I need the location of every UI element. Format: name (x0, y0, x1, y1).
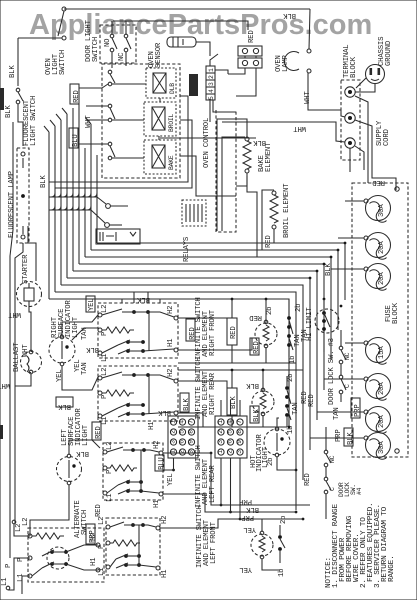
label BLK mid (180, 393, 189, 412)
wire L2 bottom (14, 524, 30, 536)
fuse 20A 6 (366, 407, 391, 432)
svg-text:1: 1 (217, 420, 224, 424)
terminal 1 (345, 87, 355, 97)
svg-text:WHT: WHT (0, 381, 10, 389)
svg-text:P: P (5, 564, 13, 568)
svg-text:RED: RED (73, 90, 81, 103)
alternate switch box (28, 528, 104, 582)
svg-text:BLK: BLK (76, 449, 89, 457)
wire bundle horizontal long (55, 243, 345, 510)
ISW2 terminal H2 (174, 379, 178, 383)
svg-text:BLK: BLK (230, 396, 238, 409)
svg-text:2b: 2b (287, 374, 295, 382)
oven light switch (62, 36, 66, 40)
svg-text:BLK: BLK (183, 398, 191, 411)
label RED isw1 (186, 319, 195, 341)
ISW4 heater resistor (110, 540, 140, 546)
connector RED lower (238, 58, 262, 68)
ISW1 terminal L1 (98, 351, 102, 355)
svg-text:1: 1 (208, 68, 215, 72)
door light switch NO contacts (110, 34, 114, 38)
svg-text:YEL: YEL (88, 298, 96, 311)
svg-text:TAN: TAN (333, 407, 341, 420)
svg-text:AppliancePartsPros.com: AppliancePartsPros.com (29, 9, 372, 41)
wire sel1 bus (178, 362, 296, 364)
ISW3 terminal H1 (159, 492, 163, 496)
ISW3 heater resistor (107, 465, 137, 471)
wire bottom bus 3 (160, 519, 303, 528)
fuse 20A 5 (366, 374, 391, 399)
svg-text:BLK: BLK (5, 105, 13, 118)
wire dl4 top (325, 427, 327, 444)
svg-text:4: 4 (179, 420, 186, 424)
wire fuse feeds (345, 200, 364, 202)
svg-text:9: 9 (188, 440, 195, 444)
sel1 contacts (287, 316, 291, 320)
svg-text:BLK: BLK (246, 505, 259, 513)
chassis ground symbol (366, 65, 385, 84)
wire bundle top hooks (44, 126, 49, 132)
relay BROIL (144, 102, 176, 136)
scan mark left edge (0, 88, 4, 110)
svg-text:1: 1 (217, 450, 224, 454)
svg-text:H2: H2 (161, 516, 169, 524)
svg-text:L2: L2 (101, 368, 109, 376)
svg-text:BLK: BLK (347, 432, 355, 445)
svg-text:BLOCK: BLOCK (392, 302, 400, 324)
svg-text:RED: RED (308, 394, 316, 407)
svg-text:15A: 15A (378, 346, 386, 359)
svg-text:LIGHT SWITCH: LIGHT SWITCH (30, 96, 38, 146)
svg-text:2b: 2b (280, 516, 288, 524)
ISW3 terminal P (103, 466, 107, 470)
wire BLK stub (160, 137, 256, 139)
oven lamp (284, 52, 299, 71)
oven enclosure box (216, 110, 236, 232)
svg-text:L2: L2 (106, 442, 114, 450)
wire terminal3 down (349, 148, 351, 172)
label PRP boxed dl3 (351, 398, 360, 418)
svg-text:BROIL: BROIL (168, 113, 175, 132)
svg-text:DLB: DLB (169, 83, 176, 94)
ISW4 terminal P (106, 541, 110, 545)
svg-text:ELEMENT: ELEMENT (265, 142, 273, 172)
label RED boxed sel1 (227, 318, 237, 345)
svg-text:H2: H2 (90, 533, 98, 541)
svg-text:H1: H1 (153, 499, 161, 508)
infinite switch left front box (106, 518, 160, 575)
svg-text:30A: 30A (378, 204, 386, 217)
terminal 2 (345, 113, 355, 123)
svg-text:BLU: BLU (158, 457, 166, 470)
relay BROIL contacts (108, 104, 112, 108)
ISW2 lower contacts (126, 403, 130, 407)
wire WHT long (222, 122, 345, 142)
svg-text:H1: H1 (148, 421, 156, 430)
svg-text:YEL: YEL (56, 369, 64, 382)
spare coil box (182, 200, 206, 226)
relays box (102, 64, 180, 178)
wire grid tops (220, 400, 222, 416)
svg-text:PRP: PRP (241, 513, 254, 521)
svg-text:TAN: TAN (81, 362, 89, 375)
ISW4 terminal H2 (156, 526, 160, 530)
wire lamp top (309, 9, 310, 49)
svg-text:BLK: BLK (246, 381, 259, 389)
ALT contact circle (47, 547, 69, 569)
ISW2 terminal L2 (98, 376, 102, 380)
svg-text:BLK: BLK (40, 175, 48, 188)
scan mark left edge 2 (0, 425, 3, 439)
right surface indicator lamp (49, 337, 75, 363)
svg-text:L1: L1 (101, 353, 109, 362)
wire bake leads (217, 119, 247, 231)
svg-text:6: 6 (227, 440, 234, 444)
wire broil leads (262, 190, 274, 250)
ALT contacts (50, 550, 54, 554)
svg-text:3: 3 (170, 440, 177, 444)
svg-text:PRP: PRP (354, 404, 362, 417)
ALT terminal H1 (96, 568, 100, 572)
selector switch LF (251, 534, 273, 556)
svg-text:C: C (344, 384, 351, 388)
svg-text:H2: H2 (167, 306, 175, 314)
wire isw2 H2 out (178, 381, 227, 388)
ISW1 terminal P (98, 328, 102, 332)
svg-text:H1: H1 (161, 569, 169, 578)
svg-text:NC: NC (344, 352, 351, 360)
infinite switch right front box (98, 303, 178, 358)
svg-text:RED: RED (230, 326, 238, 339)
svg-text:TAN: TAN (301, 329, 309, 342)
svg-text:L1: L1 (106, 493, 114, 502)
hot indicator lamp (264, 429, 290, 455)
wire pin strip down (209, 100, 211, 122)
wire isw vertical links (148, 312, 150, 351)
junction dots (220, 504, 223, 507)
svg-text:BLOCK: BLOCK (350, 56, 358, 78)
svg-text:20A: 20A (378, 241, 386, 254)
wire gather bus 2 (49, 210, 105, 223)
ISW2 terminal H1 (174, 411, 178, 415)
wire bundle drops to ISW1 (121, 299, 123, 303)
wire supply to fuse (367, 170, 369, 183)
svg-text:PRP: PRP (335, 429, 343, 442)
wire lamp bottom down (15, 243, 23, 524)
ISW3 lower contacts (126, 480, 130, 484)
svg-text:2b: 2b (267, 458, 275, 466)
ISW4 terminal H1 (156, 566, 160, 570)
svg-text:YEL: YEL (167, 473, 175, 486)
svg-text:C: C (329, 487, 336, 491)
svg-text:5: 5 (208, 96, 215, 100)
ISW2 terminal P (98, 391, 102, 395)
svg-text:TAN: TAN (292, 402, 300, 415)
door lock sw4 contacts (324, 444, 331, 505)
svg-text:CORD: CORD (383, 128, 391, 146)
ALT terminal P (28, 556, 32, 560)
fluorescent lamp tube (17, 148, 29, 243)
oven sensor body (167, 37, 196, 47)
bake element (245, 137, 249, 141)
svg-text:3: 3 (217, 440, 224, 444)
ISW1 lower contacts (126, 340, 130, 344)
svg-text:SWITCH: SWITCH (92, 37, 100, 62)
svg-text:BLK: BLK (283, 11, 296, 19)
svg-text:DOOR LOCK SW. #3: DOOR LOCK SW. #3 (328, 338, 336, 405)
fuse 20A 2 (366, 233, 391, 258)
fuse 30A top (366, 196, 391, 221)
svg-text:3: 3 (236, 450, 243, 454)
svg-text:5: 5 (227, 430, 234, 434)
infinite switch left rear box (103, 443, 163, 500)
door light switch NC contacts (124, 34, 128, 38)
ISW2 heater resistor (102, 390, 134, 396)
door lock sw3 contacts (339, 340, 346, 402)
svg-text:H1: H1 (167, 338, 175, 347)
label BLU boxed (69, 128, 78, 148)
svg-text:L2: L2 (15, 524, 23, 532)
label BLK lamp2 boxed (56, 397, 73, 407)
terminal 3 (345, 138, 355, 148)
label PRP boxed (86, 524, 95, 544)
svg-text:BLK: BLK (9, 65, 17, 78)
ISW3 terminal L1 (103, 491, 107, 495)
svg-text:RIGHT REAR: RIGHT REAR (209, 372, 217, 415)
fuse 15A (366, 338, 391, 363)
svg-text:BLK: BLK (86, 345, 99, 353)
wire contacts to coils (112, 83, 146, 85)
svg-text:9: 9 (236, 440, 243, 444)
ISW1 terminal H2 (174, 316, 178, 320)
selector switch RR (252, 391, 274, 413)
ISW4 terminal L1 (106, 565, 110, 569)
ISW1 switch blade top (102, 309, 122, 315)
ISW2 terminal L1 (98, 414, 102, 418)
ALT terminal L2 (28, 534, 32, 538)
wire nested returns (49, 96, 188, 182)
wire connector drops (244, 56, 246, 58)
label BLK boxed dl4 (344, 428, 353, 446)
svg-text:30A: 30A (378, 441, 386, 454)
ALT terminal H2 (96, 543, 100, 547)
node L2 end (12, 520, 16, 524)
svg-text:5: 5 (179, 430, 186, 434)
sel2 contacts (285, 386, 289, 390)
wire bake to bundle (247, 176, 257, 257)
label BLU boxed grid (155, 455, 164, 471)
svg-text:8: 8 (236, 430, 243, 434)
wire ground link (356, 78, 366, 88)
svg-text:NC: NC (118, 52, 126, 61)
wire pin strip to connector (215, 70, 228, 74)
svg-text:YEL: YEL (239, 565, 252, 573)
ISW3 terminal L2 (103, 450, 107, 454)
svg-text:BLK: BLK (253, 409, 261, 422)
wire dl4 bottom (325, 505, 327, 519)
wire dl3 top (340, 330, 342, 340)
svg-text:BLK: BLK (158, 408, 171, 416)
svg-text:WHT: WHT (8, 310, 21, 318)
svg-text:RELAYS: RELAYS (183, 236, 191, 262)
svg-text:RED: RED (304, 473, 312, 486)
svg-text:NC: NC (329, 455, 336, 463)
ISW1 heater resistor (102, 327, 134, 333)
svg-text:P: P (101, 332, 109, 336)
svg-text:YEL: YEL (243, 525, 256, 533)
svg-text:BLK: BLK (253, 138, 266, 146)
fuse block box (352, 183, 408, 457)
svg-text:BAKE: BAKE (168, 155, 175, 170)
svg-text:1: 1 (170, 420, 177, 424)
ISW3 terminal H2 (159, 451, 163, 455)
svg-text:STARTER: STARTER (22, 254, 30, 284)
wire hi limit top (323, 299, 325, 305)
wire junction outs (110, 205, 128, 207)
svg-text:7: 7 (236, 420, 243, 424)
svg-text:RED: RED (249, 313, 262, 321)
svg-text:3: 3 (208, 82, 215, 86)
svg-text:RED: RED (95, 426, 103, 439)
node junction 1 (106, 204, 111, 209)
svg-text:PRP: PRP (239, 497, 252, 505)
relay BAKE contacts (108, 142, 112, 146)
relay DLB (146, 68, 176, 98)
wire top rail (64, 8, 310, 10)
ALT terminal L1 (28, 574, 32, 578)
svg-text:4: 4 (208, 89, 215, 93)
ISW1 terminal L2 (98, 313, 102, 317)
label RED boxed (70, 84, 79, 104)
svg-text:SWITCH: SWITCH (81, 510, 89, 535)
terminal block box (341, 80, 360, 160)
wire to lamp (18, 104, 23, 146)
wire bundle ninth (49, 299, 289, 427)
label BLK boxed sel2 (227, 388, 237, 415)
svg-text:LIGHT: LIGHT (72, 316, 80, 338)
wire isw1 H1 out (178, 338, 252, 350)
wire isw1 H2 out (178, 317, 227, 319)
connector grid 1 (168, 416, 198, 458)
svg-text:2: 2 (208, 75, 215, 79)
label YEL boxed right surface (86, 296, 95, 312)
wire sel2 bus (231, 370, 233, 388)
wire hot lamp leads (277, 418, 279, 427)
svg-text:L2: L2 (101, 305, 109, 313)
ISW4 terminal L2 (106, 525, 110, 529)
svg-text:L1: L1 (1, 577, 9, 586)
wire ground tail (355, 84, 375, 92)
svg-text:#4: #4 (356, 487, 363, 495)
node L1 end (6, 586, 10, 590)
label BLK boxed sel2b (250, 406, 259, 423)
wire lamp left feeds (69, 440, 100, 454)
wire bottom bus 2 (163, 494, 296, 512)
svg-text:20A: 20A (378, 415, 386, 428)
fluorescent light switch (16, 88, 20, 92)
svg-text:2: 2 (217, 430, 224, 434)
svg-text:RED: RED (253, 341, 261, 354)
svg-text:LEFT REAR: LEFT REAR (209, 465, 217, 503)
wire starter to ballast (29, 307, 31, 351)
svg-text:6: 6 (179, 440, 186, 444)
svg-text:OVEN CONTROL: OVEN CONTROL (203, 118, 211, 168)
label RED boxed sel1b (250, 338, 259, 355)
starter (17, 282, 42, 307)
svg-text:P: P (106, 470, 114, 474)
svg-text:GROUND: GROUND (385, 40, 393, 66)
svg-text:RED: RED (248, 30, 256, 43)
wire left edge long (10, 122, 13, 558)
wire alt feeds (8, 558, 30, 590)
selector switch RF (255, 323, 277, 345)
connector grid 2 (215, 416, 247, 458)
svg-text:BROIL ELEMENT: BROIL ELEMENT (283, 183, 291, 238)
svg-text:LAMP: LAMP (282, 55, 290, 72)
svg-text:20A: 20A (378, 382, 386, 395)
svg-text:P: P (101, 395, 109, 399)
oven control connector shell (189, 74, 198, 96)
door light switch box (100, 25, 136, 63)
ISW1 terminal H1 (174, 348, 178, 352)
wire oven inner 2 (222, 137, 245, 231)
node top left (62, 7, 66, 11)
wire lamp feeds (62, 315, 98, 335)
svg-text:L2: L2 (98, 517, 106, 525)
wire top rail 2 (113, 21, 248, 30)
wire starter feed (28, 226, 36, 281)
svg-text:8: 8 (188, 430, 195, 434)
wire oven light feed (18, 37, 62, 39)
svg-text:RED: RED (95, 504, 103, 517)
svg-text:4: 4 (227, 420, 234, 424)
wire isw2 H1 out (178, 413, 203, 427)
wire BLK left drop (17, 38, 19, 86)
svg-text:WHT: WHT (293, 124, 306, 132)
svg-text:BALLAST: BALLAST (13, 342, 21, 372)
wire vertical bundle (49, 104, 97, 299)
svg-text:FLUORESCENT LAMP: FLUORESCENT LAMP (8, 171, 16, 238)
wire gather bus 1 (49, 197, 106, 204)
wire bottom bus 1 (163, 453, 310, 505)
wire switch feeds (111, 21, 113, 34)
svg-text:LIGHT: LIGHT (82, 424, 90, 446)
svg-text:2: 2 (227, 450, 234, 454)
svg-text:H1: H1 (90, 557, 98, 566)
fuse block corner terminals (395, 187, 399, 191)
fuse 20A 3 (366, 264, 391, 289)
svg-text:7: 7 (188, 420, 195, 424)
node junction 2 (105, 223, 110, 228)
svg-text:H2: H2 (153, 441, 161, 449)
relay DLB contacts (108, 70, 112, 74)
wire sel4 feed (261, 519, 263, 531)
oven control pin strip (206, 66, 215, 100)
svg-text:L1: L1 (101, 416, 109, 425)
fuse 30A bottom (366, 433, 391, 458)
notice text (325, 503, 396, 588)
svg-text:SWITCH: SWITCH (59, 50, 67, 75)
svg-text:L2: L2 (22, 518, 30, 526)
wire ballast out (15, 374, 31, 386)
svg-text:RED: RED (372, 178, 385, 186)
svg-text:RANGE.: RANGE. (388, 556, 396, 582)
svg-text:NO: NO (104, 38, 112, 47)
wire gather hooks (51, 193, 55, 197)
svg-text:L1: L1 (17, 573, 25, 582)
wire lamp to terminal block (308, 73, 345, 117)
left surface indicator lamp (57, 457, 82, 482)
